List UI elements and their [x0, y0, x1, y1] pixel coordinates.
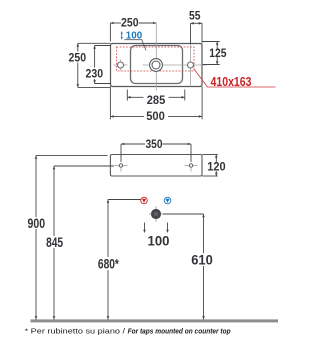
svg-text:680*: 680* [98, 256, 120, 271]
svg-text:285: 285 [147, 93, 166, 107]
svg-text:120: 120 [207, 160, 226, 174]
svg-text:350: 350 [146, 137, 163, 151]
svg-text:500: 500 [146, 109, 165, 123]
svg-text:610: 610 [191, 252, 213, 267]
svg-text:900: 900 [28, 216, 46, 231]
svg-text:230: 230 [86, 67, 104, 81]
svg-text:250: 250 [69, 51, 87, 65]
svg-text:845: 845 [46, 235, 63, 250]
svg-text:250: 250 [121, 15, 139, 29]
svg-text:55: 55 [189, 8, 201, 22]
svg-text:125: 125 [209, 46, 227, 60]
svg-text:100: 100 [148, 233, 170, 248]
svg-text:410x163: 410x163 [211, 75, 252, 89]
svg-text:* Per rubinetto su piano / For: * Per rubinetto su piano / For taps moun… [25, 326, 231, 335]
